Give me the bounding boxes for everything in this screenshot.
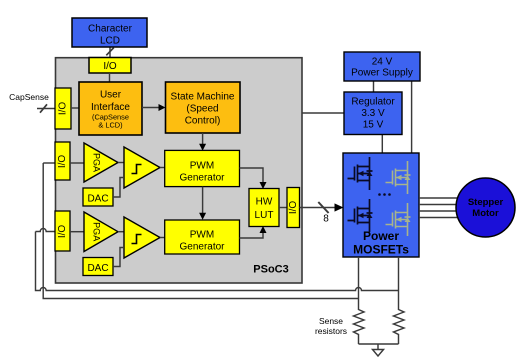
- block DAC 1: [83, 188, 113, 206]
- svg-text:Power: Power: [363, 229, 399, 243]
- svg-text:Generator: Generator: [179, 173, 225, 184]
- block User Interface: [79, 82, 142, 135]
- bus wire I/O to Power MOSFETs: [300, 207, 339, 209]
- block Regulator: [344, 92, 402, 135]
- wire PSoC to Regulator: [302, 112, 344, 114]
- wire 24V to Power MOSFETs: [411, 81, 413, 153]
- wire resistor bottoms join: [359, 343, 399, 345]
- block PWM Generator 2: [165, 220, 240, 254]
- svg-text:Interface: Interface: [91, 102, 130, 113]
- svg-text:Stepper: Stepper: [468, 197, 504, 208]
- ellipsis dots: [378, 193, 381, 196]
- motor wire 1: [419, 197, 457, 199]
- comparator 1: [124, 147, 160, 188]
- wire PGA 2 to comparator 2: [118, 231, 124, 233]
- svg-text:I/O: I/O: [57, 225, 68, 239]
- Stepper Motor: [456, 178, 515, 237]
- svg-text:CapSense: CapSense: [9, 92, 49, 102]
- svg-text:Character: Character: [88, 24, 133, 35]
- wire I/O 2 to PGA 2: [70, 231, 84, 233]
- svg-text:LUT: LUT: [255, 210, 274, 221]
- svg-text:PWM: PWM: [190, 230, 214, 241]
- wire LCD to I/O: [109, 47, 111, 58]
- bus slash on LCD wire: [106, 48, 114, 56]
- svg-text:I/O: I/O: [57, 155, 68, 169]
- block Character LCD: [72, 18, 147, 47]
- svg-text:DAC: DAC: [87, 263, 108, 274]
- wire comparator 2 to PWM Generator 2: [160, 237, 165, 239]
- wire I/O 1 to PGA 1: [70, 162, 84, 164]
- MOSFET Q1 dark: [348, 157, 373, 190]
- block PWM Generator 1: [165, 150, 240, 186]
- svg-text:PWM: PWM: [190, 161, 214, 172]
- wire MOSFETs to sense resistor 1: [358, 257, 360, 310]
- wire to ground: [377, 344, 379, 350]
- svg-text:Control): Control): [185, 116, 221, 127]
- sense resistor 1: [354, 310, 365, 345]
- svg-text:Regulator: Regulator: [351, 97, 395, 108]
- wire CapSense input: [37, 108, 55, 110]
- wire comparator 1 to PWM Generator 1: [160, 167, 165, 169]
- motor wire 3: [419, 210, 457, 212]
- wire DAC 1 to comparator 1: [113, 178, 124, 198]
- svg-text:& LCD): & LCD): [98, 121, 122, 130]
- arrow PWM Generator 1 to PWM Generator 2: [202, 187, 204, 215]
- block I/O analog 1: [55, 142, 70, 180]
- block State Machine: [166, 82, 241, 133]
- ground symbol: [373, 350, 384, 357]
- svg-text:resistors: resistors: [315, 326, 347, 336]
- PGA 2 amplifier: [84, 212, 118, 252]
- svg-text:PGA: PGA: [92, 153, 102, 172]
- wire MOSFETs to sense resistor 2: [398, 257, 400, 310]
- wire 24V to Regulator: [373, 81, 375, 92]
- wire HW LUT to I/O out: [279, 207, 287, 209]
- svg-text:HW: HW: [256, 197, 273, 208]
- svg-text:I/O: I/O: [58, 102, 69, 116]
- svg-text:LCD: LCD: [100, 36, 120, 47]
- block I/O analog 2: [55, 211, 70, 251]
- svg-text:DAC: DAC: [87, 194, 108, 205]
- feedback wire lower from resistor 1: [43, 163, 358, 299]
- block I/O capsense: [55, 88, 71, 129]
- feedback wire upper from resistor 2 with hops: [36, 232, 399, 291]
- svg-text:Generator: Generator: [179, 242, 225, 253]
- bus slash on CapSense wire: [40, 104, 47, 112]
- MOSFET Q2 dark: [348, 199, 373, 232]
- svg-text:PSoC3: PSoC3: [253, 264, 288, 276]
- arrow State Machine to PWM Generator 1: [202, 133, 204, 146]
- svg-text:Motor: Motor: [472, 208, 499, 219]
- svg-text:User: User: [100, 90, 122, 101]
- block DAC 2: [83, 258, 113, 276]
- wire PWM Generator 2 to HW LUT: [240, 231, 264, 238]
- svg-text:Sense: Sense: [319, 316, 343, 326]
- wire PGA 1 to comparator 1: [118, 162, 124, 164]
- block I/O top: [89, 58, 131, 74]
- motor wire 2: [419, 204, 457, 206]
- MOSFET Q4 faded: [386, 203, 411, 236]
- wire sense feedback into I/O 1: [43, 162, 55, 164]
- svg-text:3.3 V: 3.3 V: [361, 108, 385, 119]
- bus slash 8: [318, 202, 328, 213]
- PSoC3 main block background: [56, 58, 303, 283]
- MOSFET Q3 faded: [386, 161, 411, 194]
- svg-text:15 V: 15 V: [363, 120, 384, 131]
- svg-text:8: 8: [323, 214, 329, 225]
- sense resistor 2: [394, 310, 405, 345]
- motor wire 4: [419, 217, 457, 219]
- PGA 1 amplifier: [84, 143, 118, 182]
- svg-text:Power Supply: Power Supply: [351, 68, 413, 79]
- block I/O output: [287, 188, 300, 228]
- svg-text:MOSFETs: MOSFETs: [353, 243, 409, 257]
- svg-text:State Machine: State Machine: [171, 92, 235, 103]
- comparator 2: [124, 217, 160, 258]
- block Power MOSFETs: [343, 153, 419, 257]
- wire I/O to User Interface left: [71, 107, 79, 109]
- wire sense feedback into I/O 2 with hop: [36, 229, 56, 232]
- block 24V Power Supply: [344, 52, 420, 81]
- wire PWM Generator 1 to HW LUT: [240, 168, 264, 184]
- wire I/O to User Interface: [109, 73, 111, 82]
- svg-text:(Speed: (Speed: [186, 104, 218, 115]
- arrow User Interface to State Machine: [142, 107, 161, 109]
- wire Regulator to Power MOSFETs: [381, 135, 383, 154]
- svg-text:PGA: PGA: [92, 222, 102, 241]
- svg-text:I/O: I/O: [103, 61, 117, 72]
- block HW LUT: [249, 189, 279, 227]
- svg-text:I/O: I/O: [288, 201, 299, 215]
- svg-text:24 V: 24 V: [372, 57, 393, 68]
- wire DAC 2 to comparator 2: [113, 248, 124, 267]
